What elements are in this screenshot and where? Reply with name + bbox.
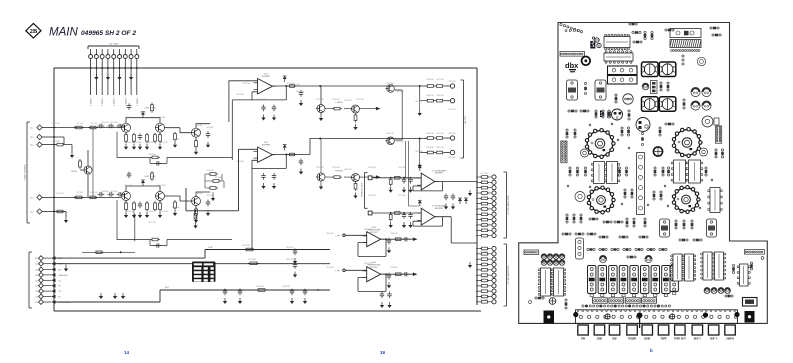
connector J6 pin 2 <box>39 261 44 266</box>
pads top left 2 <box>565 30 567 32</box>
label K103 <box>745 300 754 304</box>
resistor R25 <box>332 176 342 179</box>
bracket right top pins <box>461 80 464 158</box>
IC U105 <box>671 160 688 183</box>
junction J5 4 <box>476 264 478 266</box>
svg-text:R84 30K: R84 30K <box>344 100 352 102</box>
svg-text:LEFT TONE: LEFT TONE <box>145 176 157 178</box>
resistor R28 <box>288 85 297 88</box>
tab T8 <box>692 325 703 335</box>
resistor R101 <box>632 31 641 34</box>
svg-text:R5 50K: R5 50K <box>159 117 166 119</box>
connector J6 pin 8 lead <box>43 296 51 298</box>
part right of center 2 <box>667 82 670 91</box>
op-amp U3 <box>417 173 438 190</box>
ground G15 <box>138 144 142 150</box>
wire feedback 4 <box>413 217 443 226</box>
svg-text:FROM EQ OUT: FROM EQ OUT <box>362 182 364 197</box>
svg-text:R17 80K: R17 80K <box>134 142 142 144</box>
junction bus row2 <box>53 136 55 138</box>
connector J101 SIP <box>560 52 585 57</box>
wire bottom bus <box>54 310 481 312</box>
resistor J5 R10 <box>480 295 490 298</box>
capacitor C132 <box>575 233 584 236</box>
capacitor C118 <box>700 148 708 156</box>
svg-text:R29 20K: R29 20K <box>356 99 364 101</box>
ground G45 <box>451 204 455 210</box>
pin in 5 <box>343 234 346 237</box>
ground J6 row2 <box>64 266 68 272</box>
wire J5 pin 10 <box>477 295 492 297</box>
resistor R15 <box>159 133 162 144</box>
connector J1 pin 1 <box>37 125 42 130</box>
wire out bus A <box>310 85 427 87</box>
connector J5 pin 7 <box>492 278 496 282</box>
capacitor C35b <box>272 173 276 180</box>
wire J5 pin 9 <box>477 290 492 292</box>
svg-text:J2-5: J2-5 <box>30 212 34 214</box>
wire Q13 out <box>196 124 210 141</box>
ground arrow 2 <box>113 293 117 299</box>
svg-text:R8 80K: R8 80K <box>207 127 214 129</box>
capacitor CT1 <box>587 248 595 251</box>
connector J10 pin 2 wire <box>95 49 97 95</box>
resistor R3 <box>55 143 65 146</box>
wire pin row 3 <box>445 137 451 139</box>
capacitor C3b <box>408 177 412 184</box>
capacitor C34 <box>261 173 265 180</box>
capacitor C119 <box>575 192 585 202</box>
svg-text:R52 70K: R52 70K <box>52 123 60 125</box>
ground G60 <box>293 258 297 264</box>
connector J2 pin 1 <box>37 195 42 200</box>
capacitor C112 <box>710 27 719 30</box>
jumper strip JP1 <box>637 153 645 215</box>
connector J4 pin 2 <box>492 180 496 184</box>
wire feedback box 6 <box>358 274 386 291</box>
wire buffer input 4 <box>372 212 421 214</box>
connector J6 pin 4 <box>39 273 44 278</box>
resistor R7 <box>79 159 82 169</box>
transistor Q21 <box>121 192 131 201</box>
wire buffer input 3 <box>372 177 421 179</box>
ground G16 <box>173 142 177 148</box>
junction J5 5 <box>476 269 478 271</box>
resistor R23 <box>146 201 149 212</box>
pads col mid <box>682 55 684 57</box>
pads under J103 <box>671 50 673 52</box>
wire out bus B <box>310 138 427 140</box>
bus arrow J6 2 <box>51 262 56 266</box>
resistor R131 <box>675 220 678 229</box>
svg-text:R71 80K: R71 80K <box>214 177 222 179</box>
junction J4 4 <box>476 192 478 194</box>
connector J10 pin 8 junction <box>130 67 132 69</box>
connector J10 pin 3 junction <box>101 67 103 69</box>
capacitor C1f <box>206 131 210 138</box>
transistor Q12 <box>316 173 325 181</box>
junction U2 out <box>285 154 287 156</box>
connector J10 pin 5 junction <box>113 67 115 69</box>
svg-text:R19 10K: R19 10K <box>160 142 168 144</box>
svg-text:R85 40K: R85 40K <box>344 169 352 171</box>
ground G41 <box>418 162 422 168</box>
svg-text:J1-9: J1-9 <box>35 302 39 304</box>
tab T2 <box>594 325 605 335</box>
wire Q23 base <box>165 196 192 201</box>
capacitor C6o <box>387 273 391 280</box>
connector J10 pin 6 <box>118 55 122 59</box>
connector J5 pin 3 <box>492 257 496 261</box>
connector J1 pin 1 wire <box>42 127 56 129</box>
IC U108 <box>538 268 553 296</box>
resistor R16 <box>174 132 177 142</box>
net arrow out 5 <box>413 237 418 241</box>
capacitor C1b <box>108 124 115 128</box>
junction A2 <box>419 85 421 87</box>
pin1 marker b <box>600 111 603 118</box>
resistor row c <box>627 256 636 259</box>
svg-text:R79 70K: R79 70K <box>448 109 456 111</box>
ground G39 <box>353 193 357 199</box>
bus arrow J6 7 <box>51 289 56 293</box>
resistor J4 R6 <box>480 202 490 205</box>
junction 3a <box>390 177 392 179</box>
wire base feed 1 <box>121 125 125 127</box>
connector J10 pin 7 <box>123 55 127 59</box>
wire pin row 4 <box>445 152 451 154</box>
junction out 6 <box>385 273 387 275</box>
connector J10 pin 1 junction <box>90 67 92 69</box>
connector J10 pin 9 wire <box>136 49 138 95</box>
wire J6 row1 long <box>56 250 331 259</box>
svg-text:R22 40K: R22 40K <box>160 211 168 213</box>
wire J5 pin 3 <box>477 258 492 260</box>
connector J10 pin 5 <box>112 55 116 59</box>
junction r9b <box>317 289 319 291</box>
wire J4 pin 1 <box>477 176 492 178</box>
resistor R108 <box>602 110 605 118</box>
svg-text:TO LEFT AMPLIFIER: TO LEFT AMPLIFIER <box>507 265 510 285</box>
resistor R5 <box>88 196 98 199</box>
connector input 4 <box>368 211 372 215</box>
svg-text:+15: +15 <box>58 280 61 282</box>
svg-text:-15: -15 <box>58 291 61 293</box>
svg-text:J2-2: J2-2 <box>30 137 34 139</box>
svg-text:R13 40K: R13 40K <box>195 193 203 195</box>
wire J6 row2 stub <box>56 264 67 266</box>
connector J10 pin 4 wire <box>107 49 109 95</box>
bracket buffer inputs <box>365 173 368 209</box>
connector J6 pin 3 lead <box>43 269 51 271</box>
connector input 3 <box>368 176 372 180</box>
resistor R136 <box>619 236 628 239</box>
svg-text:L TONE 1: L TONE 1 <box>137 96 139 106</box>
power U4 <box>418 200 422 206</box>
resistor R27v <box>194 212 197 222</box>
wire feedback loop 2 <box>117 200 232 246</box>
switch SW1 <box>588 266 596 297</box>
resistor R62 <box>256 289 267 292</box>
wire J4 pin 8 <box>477 213 492 215</box>
svg-text:R40 40K: R40 40K <box>426 133 434 135</box>
resistor R13 <box>146 133 149 144</box>
connector J4 pin 12 <box>492 234 496 238</box>
capacitor C147 row <box>711 288 717 294</box>
wire buffer out 1 <box>435 181 477 183</box>
resistor R37 <box>435 151 445 154</box>
connector J10 pin 9 junction <box>136 67 138 69</box>
resistor R23b <box>354 113 357 123</box>
capacitor C102 big <box>642 62 659 77</box>
IC U102 DIP14 <box>604 51 633 64</box>
transistor Q5 mute <box>83 166 92 174</box>
junction A1 <box>319 85 321 87</box>
capacitor C2c <box>117 192 124 196</box>
wire emitters 2 <box>126 201 160 204</box>
tab T10 <box>725 325 736 335</box>
resistor R142 <box>535 297 544 300</box>
connector J2 pin 2 <box>37 209 42 214</box>
strip small pads row <box>577 310 579 312</box>
connector J5 pin 6 <box>492 273 496 277</box>
svg-text:R73 10K: R73 10K <box>480 199 488 201</box>
resistor R21 <box>211 180 221 183</box>
capacitor C150 elec <box>612 109 623 120</box>
wire collector link 2 <box>126 186 160 192</box>
svg-text:R80 80K: R80 80K <box>448 133 456 135</box>
capacitor C1e <box>138 133 142 140</box>
ground G40 <box>418 110 422 116</box>
svg-text:R82 10K: R82 10K <box>415 101 423 103</box>
resistor R29 <box>288 153 297 156</box>
connector J2 pin 1 wire <box>42 196 56 198</box>
svg-text:R54 90K: R54 90K <box>56 193 64 195</box>
capacitor C41 <box>387 292 391 299</box>
connector J6 pin 1 lead <box>43 257 51 259</box>
wire feedback loop 1 <box>117 132 232 164</box>
svg-text:R37 10K: R37 10K <box>436 79 444 81</box>
svg-text:CHAN LED: CHAN LED <box>58 274 68 277</box>
wire right trunk <box>476 68 478 305</box>
resistor R117 <box>654 167 657 176</box>
capacitor C1g <box>155 161 162 165</box>
connector J5 pin 1 <box>492 246 496 250</box>
resistor R126 <box>573 214 576 223</box>
svg-text:L TONE 1: L TONE 1 <box>125 96 127 106</box>
capacitor C30 <box>299 90 303 97</box>
svg-text:R4 40K: R4 40K <box>140 112 147 114</box>
bus arrow J6 3 <box>51 268 56 272</box>
tab T7 <box>675 325 686 335</box>
capacitor C125 <box>721 149 724 158</box>
svg-text:R81 90K: R81 90K <box>448 157 456 159</box>
strip bullet c <box>703 312 708 317</box>
capacitor C63 <box>238 289 242 296</box>
resistor R125 <box>566 214 569 223</box>
resistor J4 R10 <box>480 224 490 227</box>
ground G34 <box>299 169 303 175</box>
svg-text:R57 30K: R57 30K <box>110 122 118 124</box>
svg-text:BUF Y: BUF Y <box>694 338 702 341</box>
resistor R113 <box>574 129 577 138</box>
svg-text:MUTE: MUTE <box>71 171 77 173</box>
resistor R122 <box>665 123 674 126</box>
wire J6 row9 long <box>56 290 331 302</box>
switch SW5 <box>630 266 638 297</box>
connector J6 pin 6 <box>39 283 44 288</box>
capacitor C4a <box>402 212 406 219</box>
capacitor C31 <box>261 105 265 112</box>
resistor R107 <box>595 110 598 118</box>
junction input 1 <box>74 127 76 129</box>
ground G22 <box>132 212 136 218</box>
pad row under connectors <box>582 305 671 307</box>
capacitor C110 <box>584 82 587 94</box>
capacitor C114 <box>702 87 711 96</box>
svg-text:dbx: dbx <box>565 61 579 70</box>
wire J4 pin 4 <box>477 192 492 194</box>
connector J3 pin 2 <box>450 99 454 103</box>
capacitor C148 row <box>718 288 724 294</box>
capacitor C142b <box>553 260 559 266</box>
ground G32 <box>261 115 265 121</box>
resistor R4v <box>389 213 392 222</box>
component value labels <box>52 79 488 301</box>
wire trunk to J4 <box>476 68 478 305</box>
svg-text:R34 70K: R34 70K <box>386 133 394 135</box>
svg-text:J1-4: J1-4 <box>35 275 39 277</box>
connector J106 left wing <box>524 250 539 255</box>
wire Q11 <box>325 108 376 110</box>
tab T4 <box>627 325 638 335</box>
strip crossed pad a <box>605 314 610 319</box>
wire vertical feed B <box>409 141 420 206</box>
svg-text:R18 90K: R18 90K <box>146 142 154 144</box>
capacitor C104 big <box>642 97 659 112</box>
svg-text:R21 30K: R21 30K <box>146 211 154 213</box>
capacitor C126 <box>653 191 656 200</box>
IC U111 <box>682 254 696 281</box>
connector J3 pin 4 <box>450 150 454 154</box>
resistor R14 <box>154 133 157 144</box>
ground G62 <box>223 298 227 304</box>
ground G46 <box>193 223 197 229</box>
svg-text:OUTPUT: OUTPUT <box>370 232 379 234</box>
ground G4v <box>389 222 393 228</box>
op-amp U1 <box>254 79 276 94</box>
svg-text:J1-2: J1-2 <box>35 264 39 266</box>
svg-text:BUFFER: BUFFER <box>262 145 271 147</box>
switch SW6 <box>641 266 649 297</box>
capacitor C6p <box>403 272 410 276</box>
switch SW3 <box>609 266 617 297</box>
connector J10 pin 4 junction <box>107 67 109 69</box>
svg-text:R67 40K: R67 40K <box>248 259 256 261</box>
connector J6 pin 9 lead <box>43 301 51 303</box>
ground G17 <box>194 149 198 155</box>
bus arrow J6 6 <box>51 284 56 288</box>
capacitor CT4 <box>623 248 631 251</box>
svg-text:R56 20K: R56 20K <box>101 122 109 124</box>
connector J4 pin 6 <box>492 202 496 206</box>
capacitor CT2 <box>599 248 607 251</box>
capacitor C1d <box>127 103 131 110</box>
transistor Q15 jfet on bus <box>386 137 395 145</box>
connector J1 pin 3 <box>37 142 42 147</box>
svg-text:TUNER: TUNER <box>628 338 637 341</box>
bus arrow J6 9 <box>51 300 56 304</box>
svg-text:R2 20K: R2 20K <box>91 123 98 125</box>
via field middle <box>589 124 591 126</box>
wire U1 input feed <box>229 81 258 122</box>
svg-text:R87 60K: R87 60K <box>364 229 372 231</box>
resistor R123 <box>631 189 634 198</box>
connector J3 pin 3 <box>450 136 454 140</box>
wire J4 pin 11 <box>477 229 492 231</box>
connector J6 pin 7 lead <box>43 290 51 292</box>
power U1 <box>283 76 287 82</box>
ground G31 <box>299 100 303 106</box>
svg-text:R28 10K: R28 10K <box>332 99 340 101</box>
svg-text:R12 30K: R12 30K <box>158 185 166 187</box>
svg-text:L TONE 1: L TONE 1 <box>114 96 116 106</box>
resistor R143 <box>628 110 631 120</box>
tab T9 <box>708 325 719 335</box>
transistor Q103 <box>660 219 670 237</box>
connector J10 pin 2 <box>94 55 98 59</box>
strip crossed pad b <box>670 314 675 319</box>
wire Q23 out <box>196 192 210 209</box>
wire gnd tap 1 <box>419 101 421 110</box>
ground G3b <box>408 187 412 193</box>
capacitor C140b <box>541 260 547 266</box>
connector J6 pin 5 lead <box>43 279 51 281</box>
svg-text:J2-3: J2-3 <box>30 145 34 147</box>
wire collector link 1 <box>126 118 160 124</box>
ground G3v <box>389 187 393 193</box>
svg-text:049965 SH 2 OF 2: 049965 SH 2 OF 2 <box>81 30 136 37</box>
capacitor C117 <box>653 147 662 156</box>
power P11 <box>464 198 468 204</box>
IC U109 <box>551 268 566 296</box>
capacitor C3a <box>402 177 406 184</box>
capacitor C62 <box>223 289 227 296</box>
strip pads row <box>579 315 582 318</box>
resistor R133 <box>691 220 694 229</box>
junction J4 11 <box>476 230 478 232</box>
ground below J10 pin 6 <box>117 74 121 80</box>
switch SW7 <box>651 266 659 297</box>
IC U114 wing <box>737 264 750 286</box>
wire J5 pin 2 <box>477 253 492 255</box>
resistor R130 <box>633 218 636 227</box>
junction J5 10 <box>476 296 478 298</box>
resistor R128 <box>603 221 612 224</box>
wire row4 drop <box>420 139 427 153</box>
junction J5 7 <box>476 280 478 282</box>
resistor R5o <box>394 238 404 241</box>
IC U103 <box>591 162 607 184</box>
junction bus row5 <box>53 211 55 213</box>
resistor R4 <box>74 196 84 199</box>
ground G3a <box>402 187 406 193</box>
svg-text:R72 90K: R72 90K <box>480 173 488 175</box>
resistor R60 <box>244 248 255 251</box>
net arrow out 6 <box>413 272 418 276</box>
capacitor C146 row <box>704 288 710 294</box>
ground G43 <box>387 302 391 308</box>
